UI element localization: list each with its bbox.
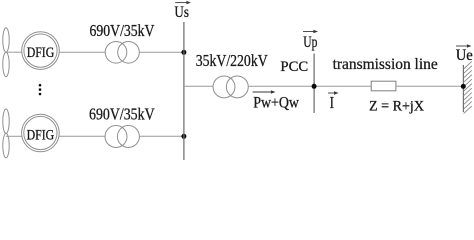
PCC bus (313, 54, 315, 114)
wire 35kV bus to transformer T3 (184, 85, 213, 87)
ellipsis dots (more turbines) (39, 84, 42, 95)
wire WT2 hub to DFIG2 (6, 135, 22, 137)
vector arrow over Ue (456, 44, 472, 47)
wind turbine WT2 blades (3, 109, 9, 158)
transformer T3 35kV/220kV (213, 76, 248, 98)
wire DFIG1 to transformer T1 (59, 51, 105, 53)
junction dot row2 on 35kV bus (181, 134, 186, 139)
svg-text:DFIG: DFIG (27, 45, 55, 61)
wind turbine WT1 blades (3, 28, 9, 77)
svg-text:I: I (330, 93, 334, 112)
svg-text:transmission line: transmission line (333, 54, 438, 73)
wire T1 to 35kV bus (139, 51, 184, 53)
svg-text:Us: Us (174, 4, 189, 21)
svg-text:Ue: Ue (456, 47, 473, 64)
vector arrow over I (328, 91, 339, 94)
svg-text:690V/35kV: 690V/35kV (89, 105, 155, 124)
grid infinite-bus wall line (462, 65, 464, 112)
35kV collector bus (183, 22, 185, 160)
svg-text:Z = R+jX: Z = R+jX (369, 97, 424, 114)
generator DFIG2 (22, 114, 60, 152)
wire WT1 hub to DFIG1 (6, 51, 22, 53)
wire T3 to transmission line (248, 85, 371, 87)
junction dot at grid connection (461, 84, 466, 89)
transformer T1 690V/35kV (105, 42, 139, 64)
wire transmission line to grid (396, 85, 463, 87)
wire T2 to 35kV bus (140, 135, 184, 137)
svg-text:35kV/220kV: 35kV/220kV (196, 51, 268, 70)
transformer T2 690V/35kV (105, 126, 139, 148)
svg-text:690V/35kV: 690V/35kV (90, 21, 155, 40)
generator DFIG1 (22, 32, 60, 70)
wire DFIG2 to transformer T2 (59, 135, 105, 137)
vector arrow over Us (175, 1, 191, 4)
svg-text:Up: Up (303, 34, 317, 51)
impedance box Z of transmission line (371, 81, 396, 91)
junction dot at PCC (312, 84, 317, 89)
svg-text:PCC: PCC (280, 58, 308, 75)
svg-text:DFIG: DFIG (27, 127, 55, 143)
vector arrow over Up (303, 30, 318, 33)
vector arrow of power flow Pw+Qw (253, 90, 276, 93)
grid wall hatching (464, 61, 472, 113)
svg-text:Pw+Qw: Pw+Qw (253, 94, 299, 112)
junction dot row1 on 35kV bus (181, 50, 186, 55)
